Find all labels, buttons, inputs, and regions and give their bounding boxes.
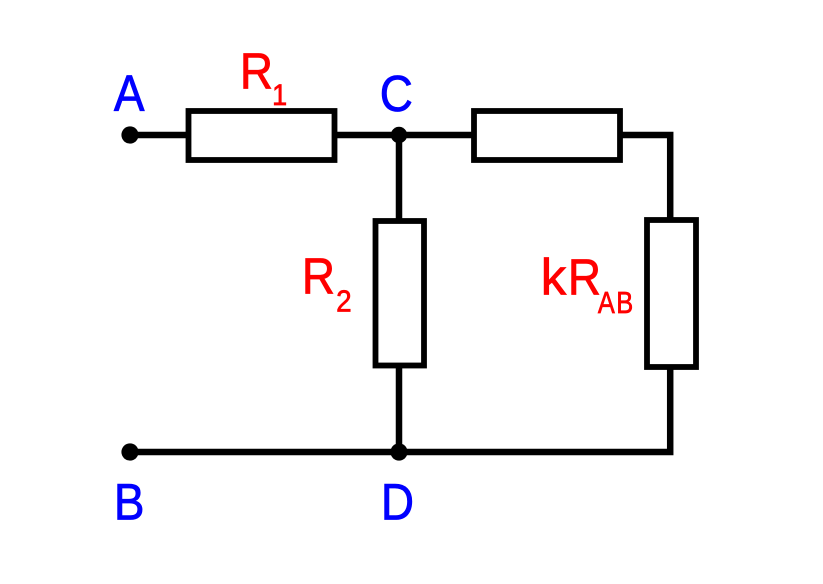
wire R1 to C — [335, 132, 400, 139]
node label A — [114, 66, 145, 123]
svg-text:1: 1 — [272, 79, 287, 113]
label kRAB — [541, 249, 567, 306]
wire R2 to D — [396, 366, 403, 453]
wire C to R3 — [399, 132, 474, 139]
resistor R2 — [376, 221, 425, 366]
label R2 — [302, 248, 335, 305]
wire kRAB to bottom rail and bottom wire to B — [130, 367, 670, 452]
node label B — [114, 474, 145, 531]
node C — [391, 127, 407, 143]
svg-text:R: R — [568, 249, 601, 306]
svg-text:k: k — [541, 249, 567, 306]
svg-text:C: C — [380, 66, 413, 123]
node D — [390, 443, 407, 460]
svg-text:B: B — [616, 286, 633, 321]
wire A to R1 — [130, 132, 188, 139]
wire R3 to kRAB (right corner) — [620, 135, 670, 221]
svg-text:A: A — [598, 286, 615, 321]
svg-text:D: D — [381, 474, 414, 531]
svg-text:B: B — [114, 474, 145, 531]
node label C — [380, 66, 413, 123]
node label D — [381, 474, 414, 531]
wire C to R2 — [396, 135, 403, 221]
terminal B — [121, 443, 138, 460]
resistor R3 (unlabeled, top right) — [474, 111, 620, 160]
terminal A — [121, 126, 138, 143]
svg-text:A: A — [114, 66, 145, 123]
resistor R1 — [189, 111, 335, 160]
resistor kRAB — [647, 220, 696, 367]
svg-text:R: R — [240, 43, 273, 100]
label R1 — [240, 43, 273, 100]
svg-text:2: 2 — [336, 284, 352, 319]
svg-text:R: R — [302, 248, 335, 305]
